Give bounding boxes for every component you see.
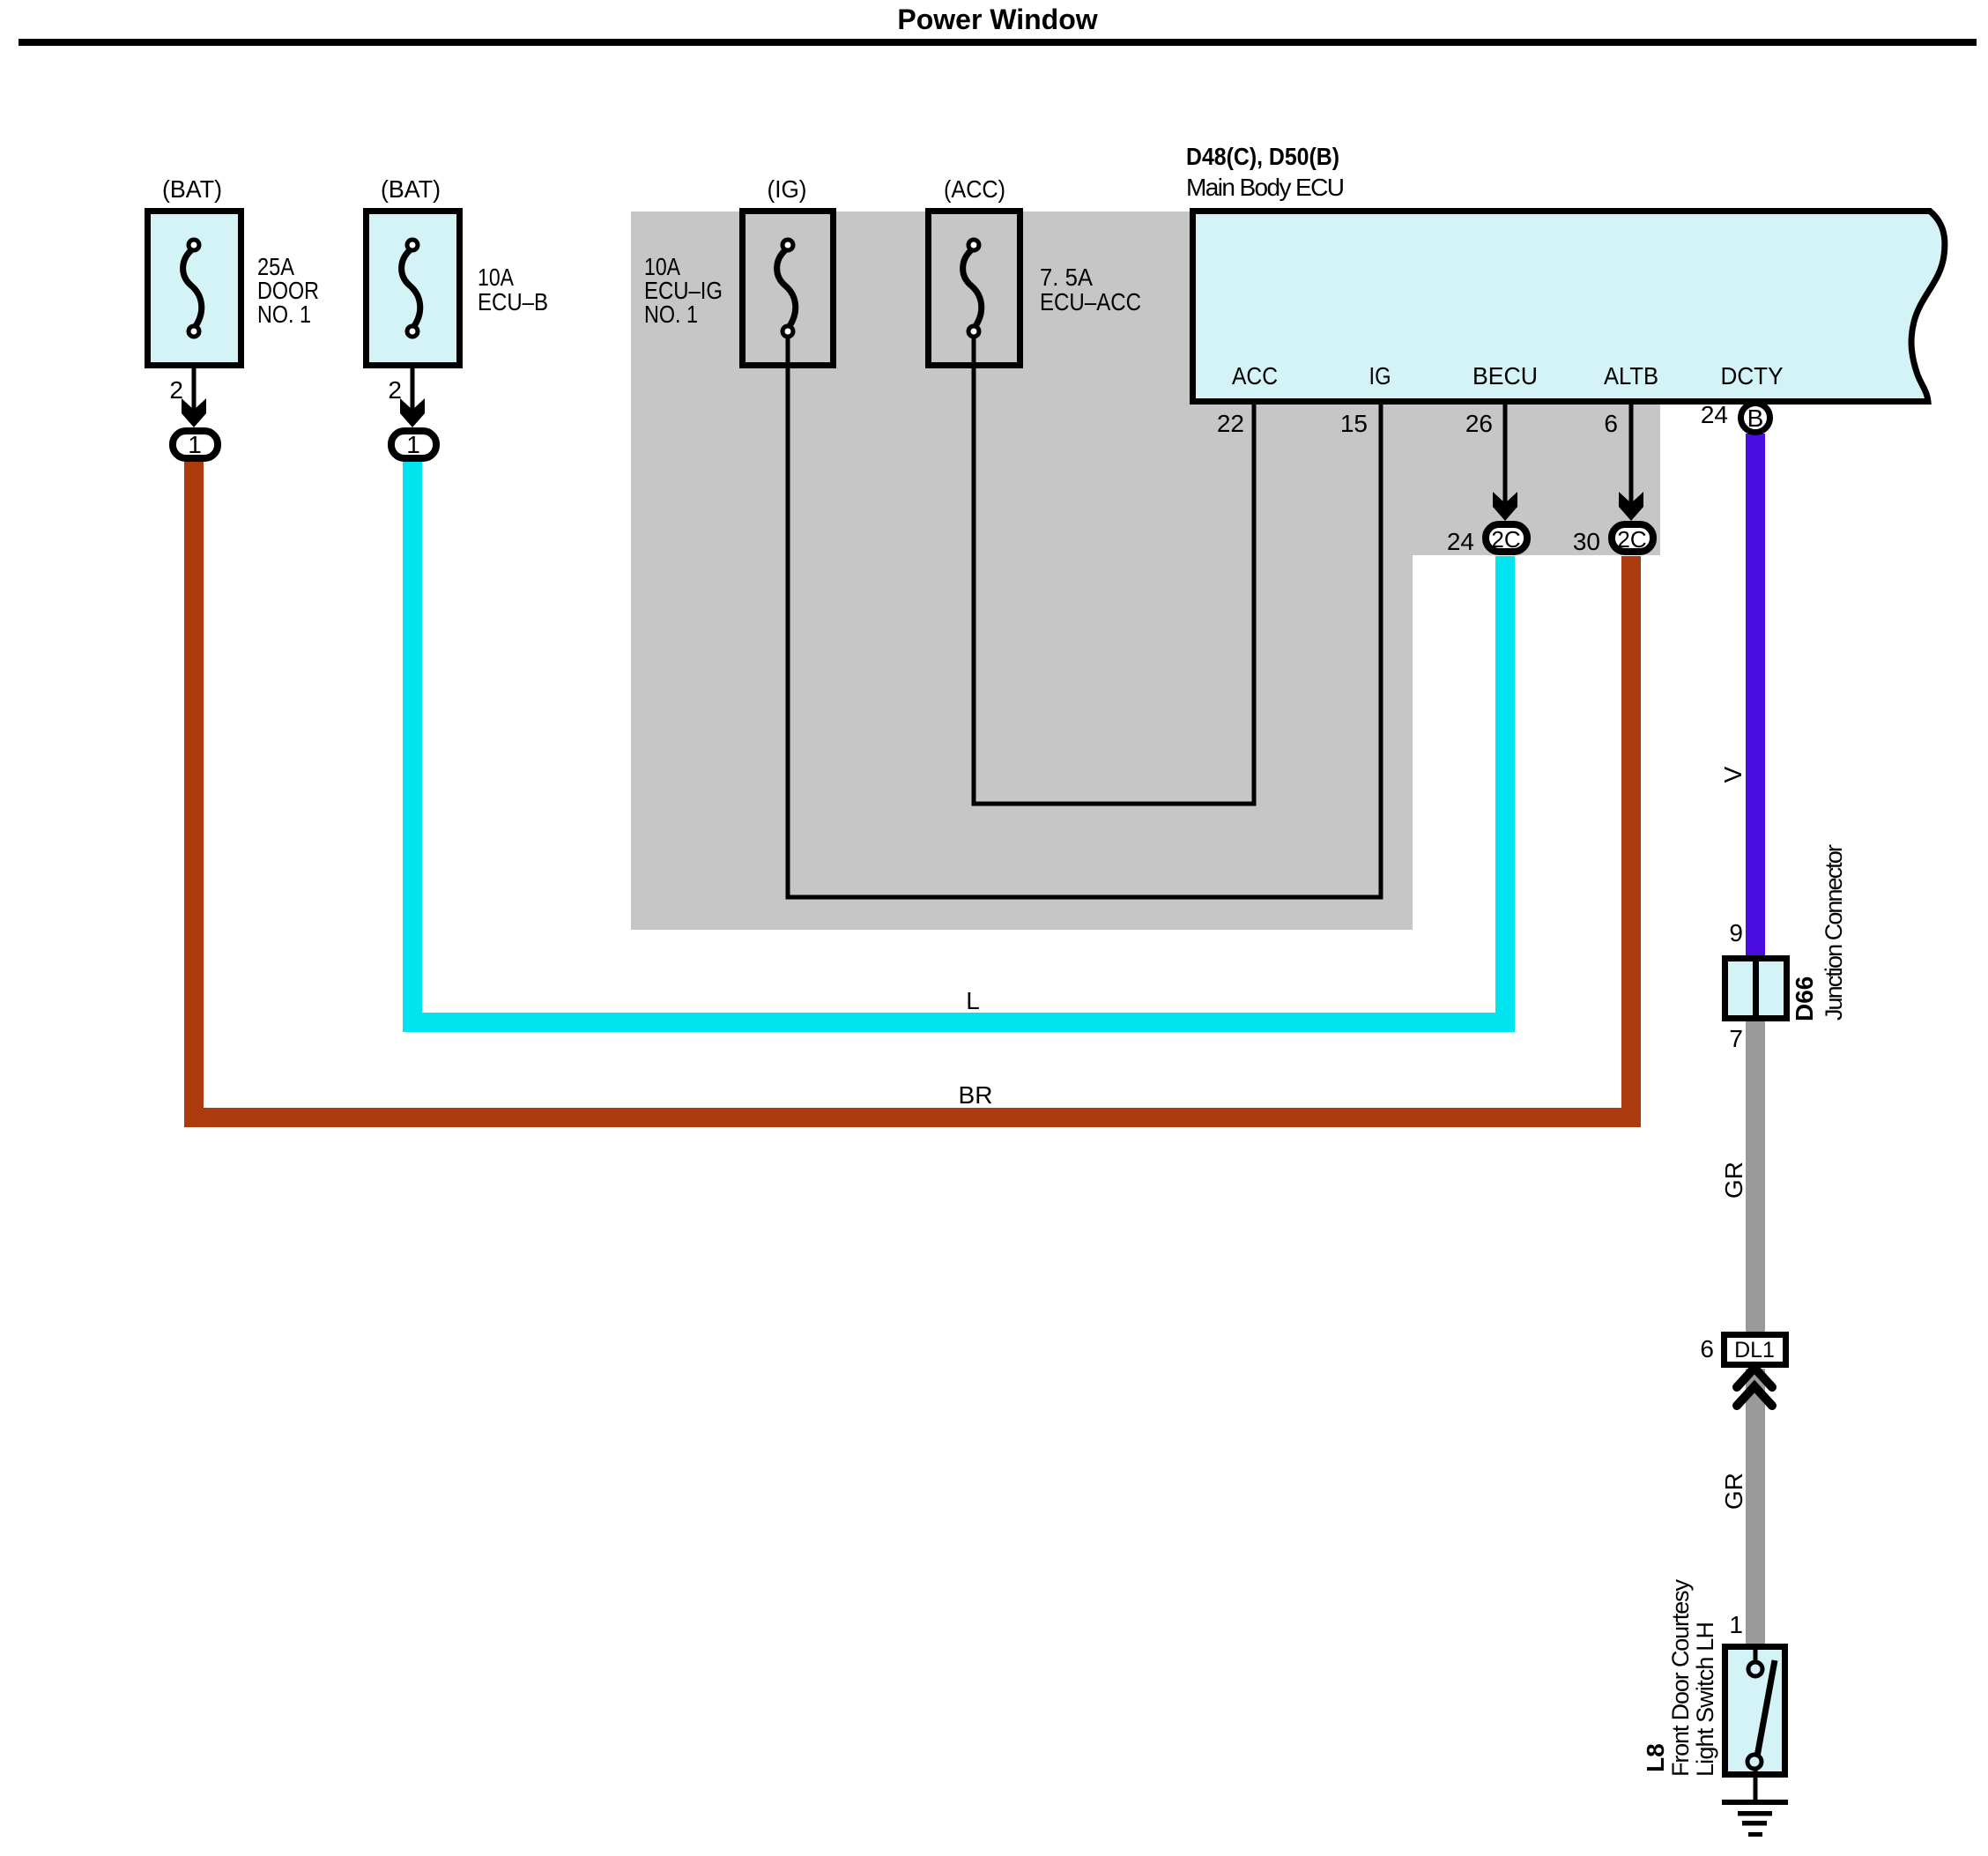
- svg-text:(BAT): (BAT): [162, 175, 222, 203]
- svg-text:30: 30: [1573, 528, 1600, 555]
- connector B circle (DCTY pin 24): [1741, 404, 1770, 433]
- svg-text:1: 1: [1729, 1611, 1743, 1638]
- svg-text:15: 15: [1340, 410, 1368, 437]
- svg-text:24: 24: [1447, 528, 1474, 555]
- svg-text:DL1: DL1: [1734, 1338, 1775, 1362]
- arrow into connector 1 (DOOR): [182, 398, 206, 427]
- svg-text:26: 26: [1465, 410, 1493, 437]
- wire fuse ECU-IG to pin IG: [788, 335, 1381, 897]
- arrow into 2C (ALTB): [1619, 492, 1643, 521]
- wire stub pin BECU: [1503, 401, 1508, 505]
- fuse 10A ECU-IG NO.1: [743, 212, 834, 366]
- svg-text:DCTY: DCTY: [1721, 362, 1784, 390]
- svg-text:(BAT): (BAT): [381, 175, 441, 203]
- svg-text:ACC: ACC: [1232, 362, 1278, 390]
- connector 2C oval (BECU): [1486, 524, 1527, 552]
- svg-text:D66: D66: [1791, 976, 1818, 1021]
- svg-text:ALTB: ALTB: [1604, 362, 1658, 390]
- ECU box D48/D50 Main Body ECU: [1193, 212, 1945, 402]
- svg-text:V: V: [1719, 766, 1747, 783]
- svg-text:2C: 2C: [1617, 526, 1646, 553]
- wire L cyan: [412, 462, 1505, 1022]
- wire BR brown: [194, 462, 1631, 1117]
- svg-text:IG: IG: [1369, 362, 1391, 390]
- svg-text:Power Window: Power Window: [897, 4, 1097, 35]
- svg-text:7. 5A: 7. 5A: [1040, 264, 1093, 291]
- svg-text:Junction Connector: Junction Connector: [1821, 844, 1847, 1021]
- svg-text:2: 2: [169, 376, 183, 404]
- svg-text:D48(C), D50(B): D48(C), D50(B): [1186, 143, 1339, 170]
- wire GR gray lower: [1746, 1369, 1765, 1644]
- svg-text:L: L: [966, 987, 980, 1014]
- fuse 25A DOOR NO.1: [148, 212, 241, 366]
- svg-text:Light Switch LH: Light Switch LH: [1692, 1622, 1718, 1777]
- junction connector D66: [1725, 959, 1787, 1019]
- svg-text:ECU–ACC: ECU–ACC: [1040, 288, 1141, 316]
- connector DL1: [1725, 1335, 1786, 1365]
- arrow into 2C (BECU): [1493, 492, 1517, 521]
- connector 1 oval (ECU-B): [391, 431, 436, 458]
- switch L8 Front Door Courtesy Light Switch LH: [1725, 1647, 1785, 1803]
- wire fuse ECU-ACC to pin ACC: [974, 335, 1254, 804]
- svg-text:BR: BR: [959, 1081, 993, 1109]
- wire stub pin ALTB: [1629, 401, 1634, 505]
- svg-text:ECU–B: ECU–B: [478, 288, 548, 316]
- fuse 10A ECU-B: [367, 212, 460, 366]
- svg-text:22: 22: [1217, 410, 1244, 437]
- svg-text:7: 7: [1729, 1025, 1743, 1052]
- svg-text:BECU: BECU: [1472, 362, 1538, 390]
- svg-text:6: 6: [1604, 410, 1618, 437]
- fuse 7.5A ECU-ACC: [929, 212, 1020, 366]
- wire V violet: [1746, 434, 1765, 955]
- svg-text:(IG): (IG): [768, 175, 807, 203]
- title rule: [19, 39, 1977, 46]
- svg-text:GR: GR: [1720, 1162, 1747, 1199]
- chevron pair below DL1: [1737, 1368, 1772, 1387]
- svg-text:6: 6: [1700, 1335, 1714, 1362]
- connector 2C oval (ALTB): [1612, 524, 1653, 552]
- svg-text:GR: GR: [1720, 1473, 1747, 1510]
- svg-text:1: 1: [188, 431, 202, 458]
- svg-text:NO. 1: NO. 1: [644, 301, 698, 328]
- wire stub fuse DOOR NO.1: [192, 335, 197, 412]
- svg-text:Front Door Courtesy: Front Door Courtesy: [1667, 1579, 1694, 1778]
- svg-text:NO. 1: NO. 1: [257, 301, 311, 328]
- ground: [1722, 1800, 1788, 1837]
- svg-text:B: B: [1747, 405, 1764, 432]
- shaded harness region: [631, 212, 1660, 930]
- svg-text:2: 2: [388, 376, 402, 404]
- svg-text:(ACC): (ACC): [944, 175, 1005, 203]
- svg-text:Main Body ECU: Main Body ECU: [1186, 174, 1345, 201]
- wire stub fuse ECU-B: [411, 335, 415, 412]
- svg-text:24: 24: [1701, 401, 1728, 428]
- connector 1 oval (DOOR): [173, 431, 218, 458]
- svg-text:L8: L8: [1642, 1743, 1669, 1772]
- svg-text:10A: 10A: [478, 264, 514, 291]
- svg-text:2C: 2C: [1491, 526, 1520, 553]
- svg-text:1: 1: [406, 431, 420, 458]
- arrow into connector 1 (ECU-B): [400, 398, 425, 427]
- wire GR gray upper: [1746, 1021, 1765, 1333]
- svg-text:9: 9: [1729, 919, 1743, 947]
